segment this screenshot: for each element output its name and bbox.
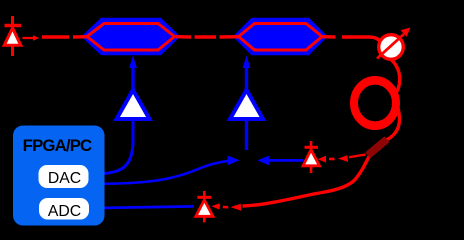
svg-text:FPGA/PC: FPGA/PC bbox=[23, 136, 92, 155]
svg-text:DAC: DAC bbox=[48, 170, 81, 187]
svg-text:ADC: ADC bbox=[48, 203, 81, 220]
